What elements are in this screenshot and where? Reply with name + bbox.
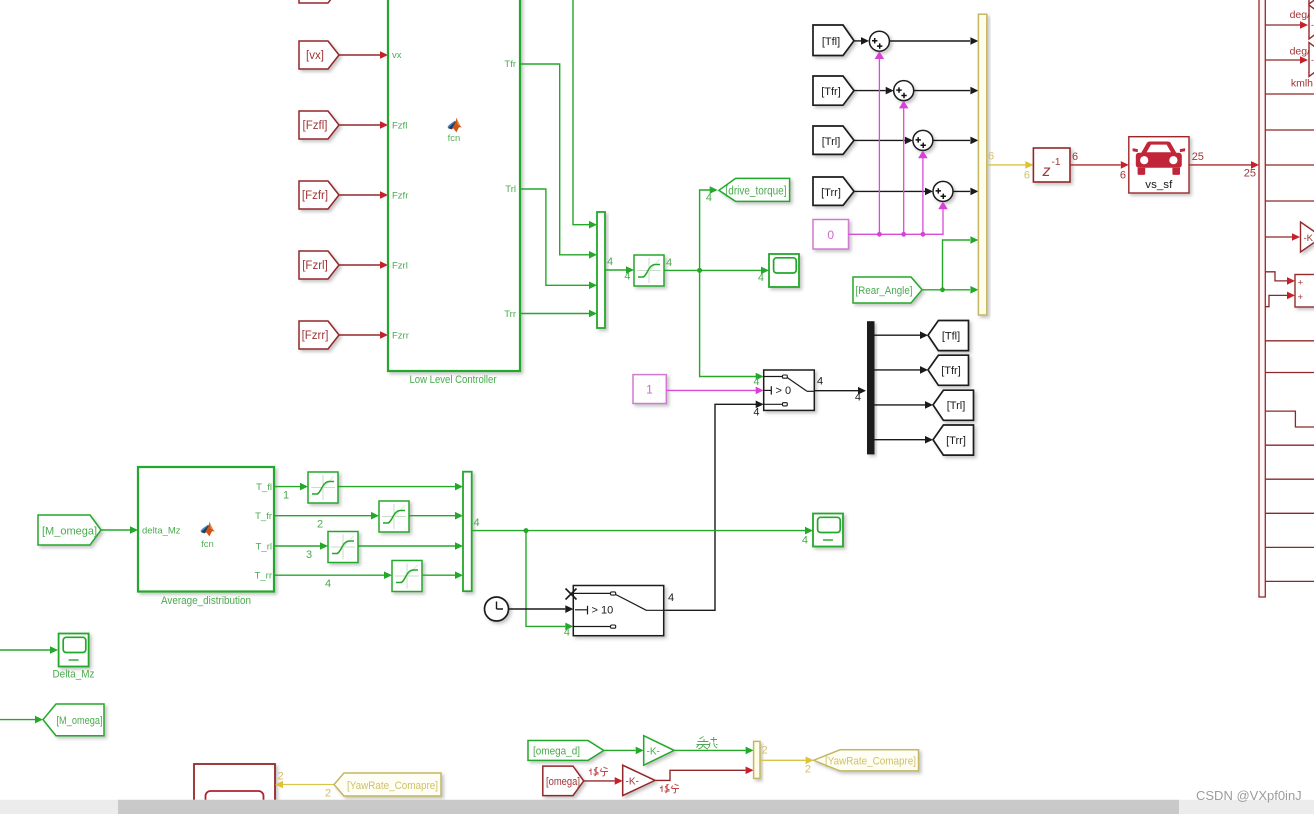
svg-text:[omega_d]: [omega_d] [533,746,580,758]
svg-text:Average_distribution: Average_distribution [161,595,251,607]
wire Tfl output [573,0,597,229]
saturation block S3 [379,501,409,532]
gain -K- green [644,736,674,766]
constant 0 magenta [813,220,849,250]
svg-text:Fzrr: Fzrr [392,331,409,342]
from tag [Tfr] [813,76,854,105]
goto tag [drive_torque] [719,178,790,201]
wire sat S4 to mux [358,542,463,550]
svg-text:1: 1 [283,490,289,502]
watermark CSDN [1196,788,1302,803]
from tag [Tfl] [813,25,854,56]
wire junction down to switch2 [526,531,573,639]
goto tag [M_omega] [43,704,104,736]
svg-text:6: 6 [1120,170,1126,182]
svg-text:[Tfl]: [Tfl] [822,36,840,48]
label shiji (actual) 2 [660,784,679,793]
svg-text:+: + [1298,278,1304,289]
wire demux out 2 [874,366,928,374]
node junction drive torque [697,268,702,273]
label deg 1 [1290,9,1311,21]
svg-text:2: 2 [762,745,768,757]
from tag [Fzfr] [299,181,339,209]
goto tag [Tfl] [928,321,969,351]
svg-text:4: 4 [855,392,861,404]
svg-text:4: 4 [666,257,672,269]
label kmlh [1291,78,1313,90]
wire Tfr output [520,64,597,259]
svg-text:4: 4 [802,535,808,547]
wire Trl output [520,189,597,289]
svg-text:6: 6 [1024,170,1030,182]
svg-text:0: 0 [827,228,834,242]
mux M1 [597,212,605,328]
wire omega to gain [584,777,623,785]
wire bus out 5 [1265,164,1314,166]
wire branch to sum1 [875,51,885,237]
svg-text:vx: vx [392,50,402,61]
svg-text:4: 4 [474,517,480,529]
wire bus to sum right top [1265,272,1295,285]
demux D1 [868,322,875,454]
wire into M_omega goto [0,716,43,724]
wire bus out 9 [1265,372,1314,374]
bus selector bar [1259,0,1265,597]
wire constant1 to switch1 [666,387,763,395]
wire demux out 4 [874,436,933,444]
wire bus out 1 [1265,21,1308,29]
switch SW2 ( > 10 ) [573,586,663,636]
svg-text:CSDN @VXpf0inJ: CSDN @VXpf0inJ [1196,788,1302,803]
svg-text:> 10: > 10 [592,604,614,616]
from tag [Fzrl] [299,251,339,279]
mux M2 yellow [978,14,986,315]
wire bus out 7 [1265,233,1300,241]
scrollbar track [0,800,1314,814]
saturation block S5 [392,561,422,592]
svg-text:[YawRate_Comapre]: [YawRate_Comapre] [825,756,916,768]
svg-text:4: 4 [668,592,674,604]
svg-text:[Trr]: [Trr] [946,435,966,447]
svg-text:-K-: -K- [647,747,660,758]
wire mux M3 out to scope2 [472,517,813,547]
mux M3 [463,472,472,592]
from tag [omega_d] [528,741,604,761]
scrollbar thumb [118,800,1179,814]
from tag [vx] [299,41,339,69]
wire sum4 to mux [953,188,978,196]
node junction M3 out [524,528,529,533]
svg-text:4: 4 [607,256,613,268]
mux M4 yellow [754,741,768,778]
svg-text:fcn: fcn [448,133,461,144]
wire YawRate from tag to scope [275,771,334,800]
wire mux M4 to goto [760,757,814,776]
svg-text:2: 2 [278,771,284,783]
from tag (partial, top edge) [299,0,339,3]
fcn icon U2 [201,522,215,550]
block label Low Level Controller [410,374,497,386]
goto tag [YawRate_Comapre] [814,750,919,771]
saturation block S4 [328,532,358,563]
wire bus out 12 [1265,478,1314,480]
label deg 2 [1290,46,1311,58]
gain -K- red [623,765,655,795]
wire T_rr to sat [274,571,392,590]
wire switch1 to demux [814,376,866,404]
svg-text:z: z [1042,163,1051,180]
wire omega_d to gain [604,747,644,755]
svg-text:Fzrl: Fzrl [392,261,408,272]
wire vs_sf to bus [1189,151,1259,180]
svg-text:Delta_Mz: Delta_Mz [53,669,95,681]
svg-text:[Fzrl]: [Fzrl] [302,260,328,272]
svg-text:-K-: -K- [626,777,639,788]
wire sum3 to mux [933,137,979,145]
svg-text:[Trr]: [Trr] [821,187,841,199]
switch SW1 [753,370,814,419]
svg-text:3: 3 [306,549,312,561]
goto tag [Trl] [933,390,974,420]
svg-text:[Tfr]: [Tfr] [821,86,841,98]
svg-text:[M_omega]: [M_omega] [57,715,103,727]
wire Rear_Angle to mux [922,286,978,294]
wire bus out 8 [1265,340,1314,342]
svg-text:Low Level Controller: Low Level Controller [410,374,497,386]
svg-text:Fzfr: Fzfr [392,191,408,202]
wire branch to sum2 [899,101,909,237]
wire Fzrr [339,331,388,339]
wire Fzfl [339,121,388,129]
wire bus out 11 [1265,444,1314,446]
svg-text:4: 4 [753,376,759,388]
svg-text:[M_omega]: [M_omega] [42,526,97,538]
wire bus out 6 [1265,200,1314,202]
wire junction down to switch1 [700,270,764,388]
constant 1 [633,375,666,404]
goto tag [Trr] [933,425,974,455]
scope Scope1 [769,254,799,287]
svg-text:4: 4 [753,407,759,419]
svg-text:[Trl]: [Trl] [947,400,966,412]
svg-text:fcn: fcn [201,539,214,550]
svg-text:delta_Mz: delta_Mz [142,526,181,537]
sum block A4 [933,181,953,201]
wire branch to sum3 [918,150,928,236]
block label Average_distribution [161,595,251,607]
wire demux out 1 [874,331,928,339]
sum block A1 [869,31,889,51]
wire green gain to mux [674,747,754,755]
wire T_fl to sat [274,483,308,502]
svg-text:2: 2 [325,788,331,800]
svg-text:kmlh: kmlh [1291,78,1313,90]
label shiji (actual) 1 [589,767,608,776]
svg-text:25: 25 [1192,151,1204,163]
saturation block S1 [634,255,672,286]
svg-text:4: 4 [624,271,630,283]
wire bus out 14 [1265,546,1314,548]
svg-text:4: 4 [564,627,570,639]
svg-text:deg/: deg/ [1290,9,1311,21]
sum block right edge [1295,275,1314,308]
goto tag [Tfr] [928,355,969,385]
wire into Delta_Mz scope [0,646,58,654]
wire sum1 to mux [889,37,978,45]
unconnected port X mark [566,589,577,600]
svg-text:-1: -1 [1052,157,1061,168]
svg-text:[drive_torque]: [drive_torque] [726,185,787,197]
wire red gain to mux [655,767,754,781]
unit delay z-1 [1033,148,1070,182]
gain triangle deg 2 [1309,43,1314,77]
wire sat S2 to mux [338,483,463,491]
svg-text:4: 4 [817,376,823,388]
svg-text:[Fzrr]: [Fzrr] [302,330,329,342]
wire bus out 4 [1265,129,1314,131]
svg-text:T_fr: T_fr [255,511,272,522]
wire Trl to sum3 [854,137,913,145]
wire bus to sum right bottom [1265,292,1295,307]
svg-text:[vx]: [vx] [306,50,324,62]
from tag [Fzfl] [299,111,339,139]
svg-text:Tfr: Tfr [504,59,516,70]
saturation block S2 [308,472,338,503]
wire T_fr to sat [274,512,379,531]
svg-text:T_rl: T_rl [256,542,272,553]
svg-text:Trl: Trl [505,184,516,195]
gain triangle deg 1 [1309,5,1314,39]
svg-text:> 0: > 0 [776,385,792,397]
wire Fzfr [339,191,388,199]
svg-text:Fzfl: Fzfl [392,121,407,132]
sum block A2 [894,81,914,101]
svg-text:2: 2 [317,519,323,531]
svg-text:4: 4 [758,272,764,284]
svg-text:[Rear_Angle]: [Rear_Angle] [856,285,913,297]
svg-text:6: 6 [1072,151,1078,163]
fcn icon U1 [448,118,462,144]
gain triangle partial top corner [1309,0,1314,4]
svg-text:Trr: Trr [504,309,516,320]
label cankao (reference) [697,737,718,750]
from tag [YawRate_Comapre] bottom [334,773,441,796]
wire Tfr to sum2 [854,87,894,95]
svg-text:2: 2 [805,764,811,776]
wire bus out 15 [1265,580,1314,582]
wire mux M2 out yellow [987,151,1034,182]
wire Tfl to sum1 [854,37,869,45]
subsystem vs_sf [1129,137,1189,193]
svg-text:1: 1 [646,383,653,397]
from tag [Fzrr] [299,321,339,349]
wire S1 to junction to scope [664,267,769,284]
from tag [Trl] [813,126,854,154]
wire switch2 up to switch1 input3 [664,401,764,611]
clock block [485,597,509,621]
wire bus out 13 [1265,512,1314,514]
wire bus out 2 [1265,56,1308,64]
svg-text:6: 6 [988,151,994,163]
svg-text:vs_sf: vs_sf [1145,179,1173,191]
wire demux out 3 [874,401,933,409]
from tag [Trr] [813,177,854,205]
wire z-1 to vs_sf [1070,151,1129,182]
from tag [Rear_Angle] [853,277,922,303]
svg-text:[omega]: [omega] [546,776,580,788]
wire Trr to sum4 [854,188,933,196]
svg-text:4: 4 [706,192,712,204]
svg-text:[Trl]: [Trl] [822,136,841,148]
label Delta_Mz [53,669,95,681]
wire to drive_torque [700,186,718,270]
wire sat S5 to mux [422,571,463,579]
wire bus out 10 jog [1265,411,1314,427]
svg-text:T_rr: T_rr [255,571,272,582]
wire bus out 3 [1265,93,1314,95]
svg-text:-K: -K [1304,233,1314,244]
svg-text:[Fzfr]: [Fzfr] [302,190,328,202]
svg-text:4: 4 [325,578,331,590]
wire Trr output [520,310,597,318]
svg-text:[Tfl]: [Tfl] [942,331,960,343]
wire T_rl to sat [274,542,328,561]
wire Rear_Angle branch up [943,236,979,290]
wire constant0 trunk [849,201,948,234]
gain triangle -K right [1301,222,1314,252]
svg-text:T_fl: T_fl [256,482,272,493]
svg-text:[YawRate_Comapre]: [YawRate_Comapre] [347,780,438,792]
sum block A3 [913,130,933,150]
wire mux M1 out [605,256,634,283]
wire vx [339,51,388,59]
scope Delta_Mz [59,634,89,667]
from tag [omega] [543,766,584,796]
scope Scope2 [813,514,843,547]
svg-text:[Fzfl]: [Fzfl] [303,120,328,132]
svg-text:deg/: deg/ [1290,46,1311,58]
wire sum2 to mux [914,87,979,95]
from tag [M_omega] [38,515,101,545]
block Low Level Controller [388,0,520,371]
wire Fzrl [339,261,388,269]
svg-text:+: + [1298,292,1304,303]
scope YawRate red box [194,764,275,819]
svg-text:25: 25 [1244,168,1256,180]
wire M_omega to block [101,526,138,534]
block Average_distribution [138,467,274,592]
wire sat S3 to mux [409,512,463,520]
wire clock to switch2 [509,605,574,613]
svg-text:[Tfr]: [Tfr] [941,365,961,377]
